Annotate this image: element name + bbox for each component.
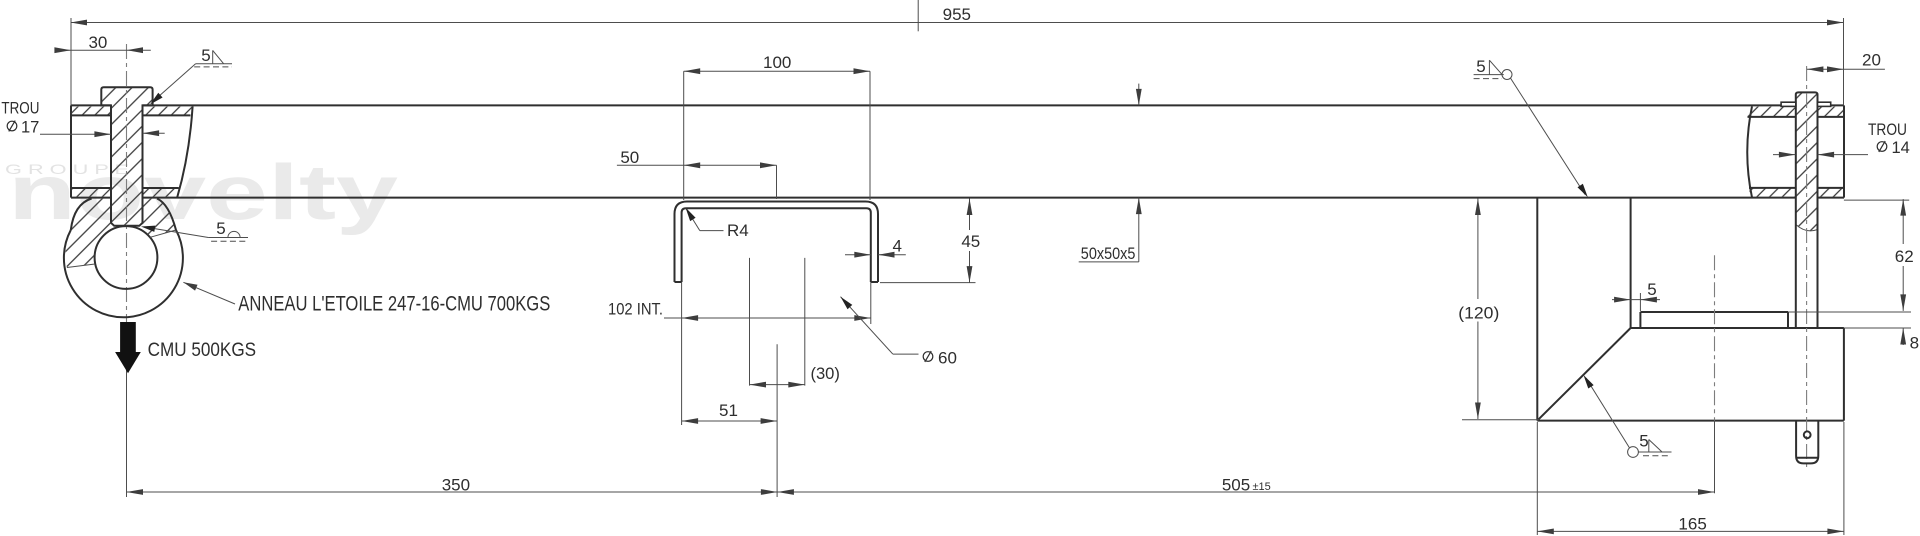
svg-text:5: 5 [1647, 280, 1656, 299]
svg-text:novelty: novelty [8, 148, 398, 236]
svg-text:R4: R4 [727, 221, 749, 240]
channel outer profile [675, 202, 879, 283]
dimension 45 bottom extension [880, 282, 976, 284]
dimension (30) [750, 364, 840, 387]
leader R4 [686, 208, 749, 241]
pin centerline [126, 44, 128, 370]
bracket gusset inner edge [1630, 198, 1632, 328]
svg-text:45: 45 [961, 232, 980, 251]
svg-text:100: 100 [763, 53, 791, 72]
extension line left edge [70, 18, 72, 105]
dimension 102 extension left [681, 282, 683, 425]
dimension 8 [1900, 328, 1919, 353]
svg-text:8: 8 [1910, 334, 1919, 353]
beam tube bottom line [71, 197, 1844, 199]
bracket slot centerline [1714, 255, 1716, 420]
svg-text:TROU: TROU [1, 100, 39, 118]
tick on 955 line [917, 0, 919, 31]
dimension 45 [961, 199, 980, 283]
svg-text:14: 14 [1892, 139, 1910, 157]
dimension 4 [845, 237, 906, 258]
svg-text:ANNEAU L'ETOILE 247-16-CMU 700: ANNEAU L'ETOILE 247-16-CMU 700KGS [238, 293, 550, 316]
left section top wall hatch [71, 107, 192, 116]
dimension 165 extension right [1843, 422, 1845, 535]
trou14 leader left [1773, 152, 1795, 158]
ring inner circle [95, 226, 158, 289]
svg-text:5: 5 [216, 219, 225, 238]
svg-text:(30): (30) [810, 364, 840, 383]
center line mid [776, 344, 778, 497]
bracket base block bottom [1537, 420, 1844, 422]
svg-text:17: 17 [21, 118, 39, 136]
dimension 505 +-15 [777, 476, 1714, 495]
dimension 165 extension left [1536, 422, 1538, 535]
label 50x50x5 leader top [1136, 84, 1142, 106]
dimension 5 plate extension [1639, 293, 1641, 311]
weld symbol 5 at bracket top [1474, 57, 1588, 197]
rod washer tab right [1818, 102, 1831, 106]
rod lower end [1796, 421, 1818, 464]
hidden line left [749, 258, 751, 386]
dimension (120) bottom extension [1462, 419, 1539, 421]
weld symbol 5 at ring [141, 219, 248, 241]
bracket gusset left edge [1536, 198, 1538, 421]
suspension rod (hatched top) [1796, 92, 1818, 327]
label 50x50x5 leader bottom [1079, 198, 1142, 262]
dimension 100 [684, 53, 870, 74]
dimension 102 INT. [608, 301, 871, 321]
dimension 165 [1537, 515, 1844, 535]
label TROU diam 14 [1868, 121, 1910, 157]
label TROU diam 17 [1, 100, 39, 137]
bracket thin plate 8mm [1640, 312, 1788, 328]
bracket base block right edge [1843, 328, 1845, 421]
ring hatched sector right [142, 199, 177, 238]
svg-text:TROU: TROU [1868, 121, 1907, 139]
rod washer tab left [1781, 102, 1796, 106]
dimension 8 extension [1844, 327, 1911, 329]
weld symbol 5 at gusset [1584, 375, 1672, 457]
pin cap and pin body (hatched) [101, 87, 152, 226]
dimension 30 [54, 33, 150, 53]
bracket slot centerline ext [1714, 421, 1716, 494]
watermark GROUPE novelty [5, 148, 398, 236]
trou17 leader left [40, 131, 111, 137]
trou17 leader right [143, 130, 165, 136]
svg-text:CMU 500KGS: CMU 500KGS [148, 339, 257, 361]
CMU load arrow [115, 322, 141, 373]
right local-section break arc [1747, 106, 1752, 197]
ring right flank curve [157, 199, 176, 231]
svg-text:50: 50 [620, 148, 639, 167]
svg-text:955: 955 [943, 5, 971, 24]
bracket base block top [1631, 327, 1844, 329]
ring hatched sector left [65, 199, 111, 268]
dimension 50 [617, 148, 777, 168]
rod centerline [1806, 66, 1808, 471]
dimension (120) [1458, 199, 1499, 420]
svg-text:102 INT.: 102 INT. [608, 301, 663, 319]
svg-text:5: 5 [1639, 432, 1648, 451]
svg-text:350: 350 [442, 476, 470, 495]
svg-text:165: 165 [1678, 515, 1706, 534]
channel inner profile [682, 208, 871, 282]
svg-text:5: 5 [1476, 57, 1485, 76]
svg-text:60: 60 [938, 348, 957, 367]
dimension 100 extension right [869, 71, 871, 200]
dimension 350 [127, 476, 778, 495]
svg-text:51: 51 [719, 401, 738, 420]
svg-text:(120): (120) [1458, 303, 1499, 322]
beam right end face [1843, 105, 1845, 197]
bracket gusset diagonal [1537, 328, 1630, 421]
dimension 62 [1895, 199, 1914, 311]
beam left end face [70, 105, 72, 197]
svg-text:4: 4 [892, 237, 901, 256]
dimension 100 extension left [683, 71, 685, 200]
left section bottom wall hatch [71, 188, 179, 197]
trou14 leader right [1818, 152, 1868, 158]
dimension 5 plate [1612, 280, 1660, 303]
ring left flank curve [71, 199, 92, 231]
dimension 20 [1807, 51, 1885, 73]
svg-text:505: 505 [1222, 476, 1250, 495]
right section top wall hatch [1747, 107, 1844, 117]
hidden line right [804, 258, 806, 386]
channel left leg end [675, 281, 682, 283]
ring leader line [183, 282, 235, 304]
beam tube 50x50x5 top line [71, 104, 1844, 106]
right section bottom wall hatch [1749, 188, 1844, 197]
extension line right edge [1843, 18, 1845, 105]
svg-text:±15: ±15 [1253, 481, 1271, 493]
svg-text:5: 5 [201, 46, 210, 65]
channel right leg end [871, 281, 878, 283]
dimension 955 [71, 5, 1844, 25]
dimension 62 top extension [1844, 199, 1909, 201]
dimension 51 [682, 401, 778, 424]
weld symbol 5 at pin cap [150, 46, 232, 105]
dimension 102 extension right [870, 282, 872, 324]
svg-text:20: 20 [1862, 51, 1881, 70]
svg-text:62: 62 [1895, 247, 1914, 266]
leader diam 60 [841, 297, 957, 368]
dimension 50 extension [776, 165, 778, 199]
dimension 62 bottom extension [1788, 311, 1911, 313]
svg-text:50x50x5: 50x50x5 [1081, 244, 1136, 263]
ring outer circle [64, 230, 183, 317]
left local-section break arc [177, 106, 192, 197]
svg-text:30: 30 [88, 33, 107, 52]
